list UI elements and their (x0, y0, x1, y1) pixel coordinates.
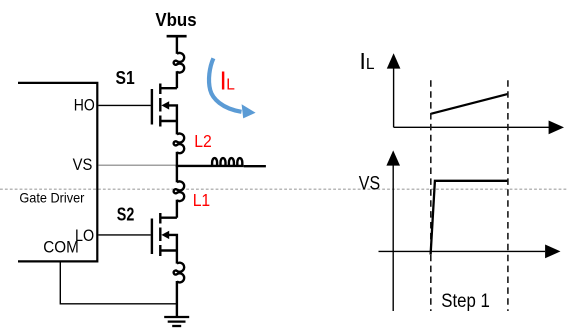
current arrow IL (blue) (209, 58, 241, 112)
svg-text:HO: HO (74, 97, 95, 115)
gate driver box (18, 83, 97, 262)
wire S2 source to bottom coil (176, 251, 178, 264)
svg-text:Gate Driver: Gate Driver (19, 189, 84, 205)
dashed separator line (0, 188, 568, 190)
transistor S1 (152, 84, 177, 127)
svg-text:L2: L2 (194, 131, 212, 151)
VS step trace (431, 181, 508, 255)
wire S1 source to L2 (176, 121, 178, 134)
IL x-axis (394, 126, 549, 128)
Vbus terminal bar (167, 35, 187, 38)
wire LO (98, 234, 150, 236)
wire output (244, 165, 266, 167)
svg-text:VS: VS (73, 156, 93, 174)
svg-text:Step 1: Step 1 (441, 291, 490, 312)
node VS branch (176, 165, 210, 167)
wire to ground (176, 281, 178, 317)
wire L2 to L1 through VS node (176, 152, 178, 183)
wire L1 to S2 drain (176, 200, 178, 218)
VS x-axis (379, 250, 546, 252)
svg-text:L1: L1 (193, 190, 211, 210)
inductor (Vbus choke) (174, 53, 185, 73)
inductor (output, horizontal) (210, 158, 244, 166)
svg-text:L: L (366, 56, 375, 73)
svg-text:VS: VS (359, 173, 380, 194)
wire Vbus to L-top (176, 36, 178, 54)
wire COM (60, 262, 177, 304)
IL y-axis (393, 66, 395, 127)
wire coil to S1 drain (176, 71, 178, 88)
dashed marker line t1 (430, 80, 432, 311)
svg-text:S1: S1 (116, 68, 135, 88)
svg-text:COM: COM (43, 238, 79, 256)
transistor S2 (152, 213, 177, 256)
svg-text:Vbus: Vbus (155, 10, 196, 30)
VS y-axis (392, 165, 394, 312)
ground (164, 317, 189, 326)
inductor L1 (174, 181, 185, 201)
svg-text:S2: S2 (117, 205, 135, 225)
IL ramp trace (431, 94, 508, 114)
inductor L2 (174, 133, 185, 153)
svg-text:L: L (226, 77, 235, 94)
inductor (source choke) (174, 263, 185, 283)
dashed marker line t2 (507, 80, 509, 311)
wire VS (gray) (98, 164, 175, 166)
wire HO (98, 104, 150, 106)
